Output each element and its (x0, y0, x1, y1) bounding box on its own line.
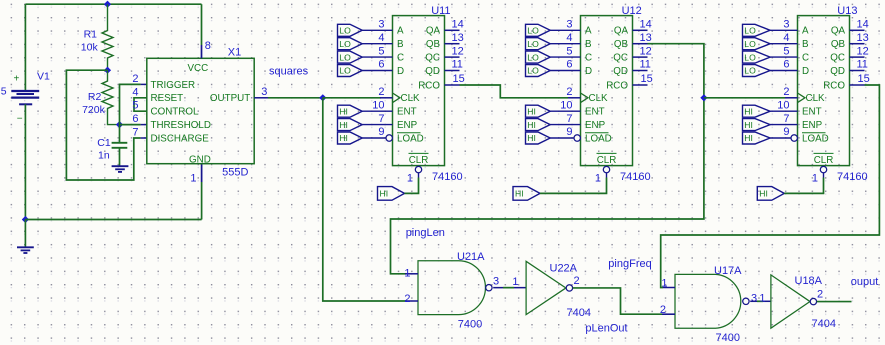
svg-text:HI: HI (380, 189, 389, 199)
wire: U17A output to U18A input (750, 300, 771, 302)
svg-text:HI: HI (527, 133, 536, 143)
svg-text:CLK: CLK (401, 93, 421, 104)
pin number 14 (U11 QA) (452, 19, 464, 31)
input constant LO at U12 pin C (526, 51, 551, 63)
wire: LO tip to U11 pin A (362, 29, 392, 31)
svg-text:squares: squares (269, 65, 309, 77)
label: U11 pin name QD (425, 66, 440, 77)
input constant LO at U12 pin A (526, 24, 551, 36)
svg-text:U12: U12 (622, 5, 642, 17)
pin number 6 (555 THRESHOLD) (132, 113, 138, 125)
label: U11 pin name ENP (397, 120, 418, 131)
svg-text:13: 13 (857, 32, 869, 44)
bubble: U11 LOAD active-low (386, 135, 392, 141)
pin number 5 (U11 C) (378, 45, 384, 57)
battery V1 (11, 91, 39, 104)
label: U13 pin name C (802, 52, 809, 63)
svg-text:10k: 10k (81, 42, 99, 54)
wire: LO tip to U11 pin D (362, 70, 392, 72)
label: U11 pin name QC (425, 52, 440, 63)
pin number 4 (U13 B) (783, 32, 789, 44)
inverter U22A 7404 body (526, 261, 566, 314)
label: U13 pin name B (802, 39, 809, 50)
svg-text:CONTROL: CONTROL (151, 107, 199, 118)
svg-text:74160: 74160 (432, 171, 463, 183)
label: U13 pin name CLR with overline (814, 153, 834, 166)
wire: R1-R2 junction loop to 555 DISCHARGE pin 7 (66, 70, 146, 180)
bubble: U12 LOAD active-low (574, 135, 580, 141)
svg-text:ENP: ENP (585, 120, 606, 131)
label: 555 pin name RESET (151, 93, 184, 104)
label: 555 pin name VCC (188, 63, 209, 74)
label: U11 pin name A (397, 26, 404, 37)
svg-text:2: 2 (783, 86, 789, 98)
label: U11 pin name RCO (418, 80, 440, 91)
label: U12 pin name RCO (606, 80, 628, 91)
label: 555 part number 555D (222, 166, 248, 178)
svg-text:6: 6 (132, 113, 138, 125)
label: counter reference U12 (622, 5, 642, 17)
svg-text:CLK: CLK (806, 93, 826, 104)
pin number 12 (U13 QC) (857, 45, 869, 57)
svg-text:B: B (397, 39, 404, 50)
input constant HI at U13 pin CLR (757, 187, 784, 201)
pin number 10 (U13 ENT) (777, 99, 789, 111)
input constant HI at U12 pin LOAD (526, 132, 551, 144)
svg-text:1: 1 (812, 172, 818, 184)
wire: C1 bottom plate to ground symbol (119, 148, 121, 166)
bubble: U18A output (810, 298, 816, 304)
input constant LO at U11 pin A (338, 24, 363, 36)
pin number 3 (U13 A) (783, 19, 789, 31)
wire: LO tip to U11 pin B (362, 43, 392, 45)
pin number 12 (U12 QC) (640, 45, 652, 57)
wire: U13 QC output pin stub (850, 56, 865, 58)
label: U13 pin name CLK with edge marker (798, 93, 826, 104)
nand gate U17A 7400 body (675, 274, 741, 328)
pin number 2 (555 TRIGGER) (132, 73, 138, 85)
svg-text:5: 5 (566, 45, 572, 57)
label: U13 pin name ENP (802, 120, 823, 131)
svg-text:LO: LO (744, 66, 756, 76)
pin number 11 (U11 QD) (452, 59, 463, 71)
label: U13 pin name D (802, 66, 809, 77)
pin number 9 (U12 LOAD) (566, 126, 572, 138)
node: junction top rail / R1 top (104, 1, 111, 8)
wire: U13 CLK pin stub (785, 97, 798, 99)
label: U13 pin name QB (831, 39, 846, 50)
wire: bottom rail to 555 GND riser (25, 219, 201, 221)
pin number 2 (U12 CLK) (566, 86, 572, 98)
label: battery reference V1 (37, 71, 50, 83)
svg-text:QB: QB (831, 39, 846, 50)
svg-text:U18A: U18A (795, 275, 823, 287)
label: resistor reference R2 (88, 91, 102, 103)
svg-text:LO: LO (527, 66, 539, 76)
wire: U11 RCO to U12 CLK (460, 85, 569, 98)
svg-text:15: 15 (858, 73, 870, 85)
wire: U17A input 1 pin stub (663, 287, 675, 289)
svg-text:QB: QB (426, 39, 441, 50)
label: U12 pin name B (585, 39, 592, 50)
svg-text:14: 14 (640, 19, 652, 31)
svg-text:1: 1 (759, 293, 765, 305)
wire: U12 RCO output pin stub (633, 84, 648, 86)
svg-text:5: 5 (378, 45, 384, 57)
pin number 7 (U13 ENP) (783, 113, 789, 125)
pin number 14 (U13 QA) (857, 19, 869, 31)
svg-text:7: 7 (378, 113, 384, 125)
svg-text:HI: HI (339, 120, 348, 130)
svg-text:QC: QC (613, 52, 628, 63)
wire: LO tip to U12 pin B (550, 43, 580, 45)
label: 555 reference X1 (228, 47, 241, 59)
label: capacitor reference C1 (97, 137, 111, 149)
wire: HI tip to U12 pin ENT (550, 110, 580, 112)
pin number 11 (U12 QD) (640, 59, 651, 71)
wire: U12 CLR bubble down and left to HI constant (540, 173, 607, 194)
label: U13 pin name ENT (802, 107, 822, 118)
svg-text:74160: 74160 (620, 171, 651, 183)
svg-text:7: 7 (566, 113, 572, 125)
wire: U13 RCO output pin stub (850, 84, 865, 86)
pin number 3 (555 OUTPUT) (261, 86, 267, 98)
svg-text:6: 6 (378, 59, 384, 71)
wire: U11 QA output pin stub (445, 29, 460, 31)
svg-text:2: 2 (660, 304, 666, 316)
svg-text:A: A (802, 26, 809, 37)
label: net name squares (269, 65, 309, 77)
wire: drop from bottom rail junction to ground symbol (24, 220, 26, 247)
svg-text:LOAD: LOAD (397, 133, 424, 144)
svg-text:LO: LO (744, 26, 756, 36)
svg-text:LO: LO (527, 39, 539, 49)
svg-text:pingFreq: pingFreq (608, 258, 651, 270)
wire: U12 QA output pin stub (633, 29, 648, 31)
wire: U21A input 1 pin stub (405, 273, 418, 275)
svg-text:LO: LO (339, 39, 351, 49)
pin number 8 (555 VCC) (205, 40, 211, 52)
wire: U13 RCO around to U17A input 1 (pingFreq) (661, 85, 880, 288)
label: U11 pin name CLR with overline (409, 153, 429, 166)
svg-text:2: 2 (132, 73, 138, 85)
pin number 1 (U21A in1) (404, 268, 410, 280)
input constant HI at U12 pin ENT (526, 105, 551, 117)
node: junction U12 QB wire / U13 CLK branch (700, 94, 707, 101)
svg-text:LO: LO (339, 26, 351, 36)
wire: U11 QB output pin stub (445, 43, 460, 45)
counter U12 74160 body (581, 16, 633, 166)
wire: U12 CLK pin stub (568, 97, 581, 99)
pin number 2 (U13 CLK) (783, 86, 789, 98)
wire: U21A output to U22A input (493, 287, 526, 289)
label: U11 pin name C (397, 52, 404, 63)
capacitor C1 (112, 143, 128, 148)
wire: U13 QB output pin stub (850, 43, 865, 45)
svg-text:U21A: U21A (457, 251, 485, 263)
svg-text:GND: GND (189, 155, 211, 166)
label: U12 pin name QA (614, 26, 629, 37)
svg-text:DISCHARGE: DISCHARGE (151, 133, 210, 144)
label: net name pingFreq (608, 258, 651, 270)
svg-text:1: 1 (595, 172, 601, 184)
label: U12 pin name QB (614, 39, 629, 50)
svg-text:555D: 555D (222, 166, 248, 178)
pin number 15 (U11 RCO) (453, 73, 465, 85)
input constant LO at U12 pin D (526, 65, 551, 77)
pin number 15 (U13 RCO) (858, 73, 870, 85)
svg-text:10: 10 (560, 99, 572, 111)
svg-text:ENT: ENT (585, 107, 605, 118)
svg-text:9: 9 (566, 126, 572, 138)
bubble: U13 CLR active-low (820, 166, 826, 172)
svg-text:6: 6 (783, 59, 789, 71)
label: gate reference U22A (550, 263, 578, 275)
input constant HI at U12 pin ENP (526, 119, 551, 131)
svg-text:15: 15 (453, 73, 465, 85)
svg-text:12: 12 (857, 45, 869, 57)
svg-text:THRESHOLD: THRESHOLD (151, 120, 211, 131)
wire: LO tip to U13 pin C (770, 56, 797, 58)
label: U11 pin name D (397, 66, 404, 77)
label: U13 pin name QA (831, 26, 846, 37)
input constant LO at U11 pin B (338, 38, 363, 50)
label: net name ouput (851, 276, 879, 288)
nand gate U21A 7400 body (418, 261, 485, 315)
wire: riser from bottom rail up to 555 GND pin 1 (201, 164, 203, 220)
svg-text:HI: HI (339, 133, 348, 143)
resistor R1 (102, 4, 113, 70)
svg-text:LO: LO (527, 52, 539, 62)
input constant HI at U13 pin ENP (743, 119, 771, 131)
svg-text:QD: QD (830, 66, 845, 77)
label: U12 pin name A (585, 26, 592, 37)
svg-text:VCC: VCC (188, 63, 209, 74)
svg-text:12: 12 (452, 45, 464, 57)
svg-text:U11: U11 (431, 5, 450, 17)
input constant HI at U11 pin ENT (338, 105, 363, 117)
label: counter reference U11 (431, 5, 450, 17)
svg-text:LO: LO (339, 66, 351, 76)
svg-text:3: 3 (261, 86, 267, 98)
wire: U21A input 2 pin stub (405, 300, 418, 302)
input constant LO at U11 pin D (338, 65, 363, 77)
svg-text:7404: 7404 (812, 318, 836, 330)
svg-text:2: 2 (378, 86, 384, 98)
wire: U17A input 2 pin stub (662, 313, 675, 315)
wire: U11 QC output pin stub (445, 56, 460, 58)
svg-text:4: 4 (783, 32, 789, 44)
wire: HI tip to U13 pin ENT (770, 110, 797, 112)
label: U11 pin name CLK with edge marker (393, 93, 421, 104)
svg-text:A: A (397, 26, 404, 37)
input constant LO at U11 pin C (338, 51, 363, 63)
label: U12 pin name CLR with overline (597, 153, 617, 166)
svg-text:7400: 7400 (716, 332, 740, 344)
pin number 3 (U17A out) (751, 293, 757, 305)
label: resistor value 720k (82, 104, 106, 116)
label: resistor reference R1 (84, 28, 98, 40)
input constant HI at U11 pin ENP (338, 119, 363, 131)
wire: U12 QC output pin stub (633, 56, 648, 58)
pin number 5 (U13 C) (783, 45, 789, 57)
wire: junction up and right to 555 TRIGGER pin 2 (120, 84, 147, 124)
wire: U11 CLR bubble down and left to HI constant (405, 173, 419, 194)
pin number 10 (U11 ENT) (372, 99, 384, 111)
svg-text:QD: QD (425, 66, 440, 77)
wire: HI tip to U11 pin ENP (362, 124, 392, 126)
svg-text:CLR: CLR (814, 155, 834, 166)
svg-text:2: 2 (566, 86, 572, 98)
wire: LO tip to U13 pin D (770, 70, 797, 72)
svg-text:LO: LO (339, 52, 351, 62)
wire: LO tip to U13 pin A (770, 29, 797, 31)
svg-text:13: 13 (452, 32, 464, 44)
svg-text:−: − (17, 114, 23, 125)
svg-text:QA: QA (426, 26, 441, 37)
svg-text:C1: C1 (97, 137, 111, 149)
pin number 2 (U11 CLK) (378, 86, 384, 98)
pin number 4 (U11 B) (378, 32, 384, 44)
label: gate reference U21A (457, 251, 485, 263)
input constant HI at U11 pin LOAD (338, 132, 363, 144)
wire: LO tip to U11 pin C (362, 56, 392, 58)
label: 555 pin name DISCHARGE (151, 133, 210, 144)
pin number 14 (U12 QA) (640, 19, 652, 31)
svg-text:CLR: CLR (409, 155, 429, 166)
svg-text:RCO: RCO (823, 80, 845, 91)
svg-text:R1: R1 (84, 28, 98, 40)
ground symbol at battery negative (17, 247, 34, 253)
svg-text:D: D (802, 66, 809, 77)
svg-text:HI: HI (744, 106, 753, 116)
pin number 1 (U18A in) (759, 293, 765, 305)
svg-text:74160: 74160 (837, 171, 868, 183)
label: U12 part number 74160 (620, 171, 651, 183)
wire: U11 CLK pin stub (380, 97, 393, 99)
inverter U18A 7404 body (771, 275, 810, 328)
label: 555 pin name CONTROL (151, 107, 199, 118)
svg-text:1: 1 (661, 278, 667, 290)
label: U11 pin name ENT (397, 107, 417, 118)
wire: U13 QA output pin stub (850, 29, 865, 31)
svg-text:HI: HI (527, 120, 536, 130)
pin number 2 (U17A in2) (660, 304, 666, 316)
pin number 4 (555 RESET) (132, 86, 138, 98)
svg-text:14: 14 (452, 19, 464, 31)
node: junction battery- / bottom rail / ground drop (22, 216, 29, 223)
svg-text:15: 15 (641, 73, 653, 85)
svg-text:ENP: ENP (802, 120, 823, 131)
pin number 15 (U12 RCO) (641, 73, 653, 85)
svg-text:7: 7 (783, 113, 789, 125)
wire: LO tip to U12 pin C (550, 56, 580, 58)
svg-text:9: 9 (378, 126, 384, 138)
pin number 1 (U22A in) (512, 276, 518, 288)
pin number 2 (U18A out) (817, 289, 823, 301)
svg-text:4: 4 (566, 32, 572, 44)
svg-text:11: 11 (640, 59, 651, 71)
label: resistor value 10k (81, 42, 99, 54)
resistor R2 (102, 70, 120, 124)
svg-text:QD: QD (613, 66, 628, 77)
node: junction squares net branch (319, 94, 326, 101)
label: battery plus polarity (14, 74, 20, 85)
svg-text:1: 1 (512, 276, 518, 288)
label: gate reference U18A (795, 275, 823, 287)
svg-text:ENT: ENT (397, 107, 417, 118)
input constant LO at U13 pin C (743, 51, 771, 63)
label: battery minus polarity (17, 114, 23, 125)
bubble: U13 LOAD active-low (791, 135, 797, 141)
label: 555 pin name GND (189, 155, 211, 166)
input constant HI at U11 pin CLR (378, 187, 405, 201)
svg-text:14: 14 (857, 19, 869, 31)
bubble: U12 CLR active-low (603, 166, 609, 172)
wire: HI tip to U11 pin ENT (362, 110, 392, 112)
wire: U18A output (ouput net) (817, 301, 852, 303)
wire: U12 QB down to pingLen rail (391, 44, 704, 274)
label: U13 pin name LOAD with overline (802, 133, 829, 145)
svg-text:5: 5 (1, 85, 7, 97)
wire: U12 QB output pin stub (633, 43, 648, 45)
label: U12 pin name QD (613, 66, 628, 77)
wire: squares junction to U11 CLK (323, 97, 381, 99)
svg-text:QC: QC (425, 52, 440, 63)
svg-text:OUTPUT: OUTPUT (210, 93, 250, 104)
label: 555 pin name TRIGGER (151, 80, 196, 91)
label: U12 pin name C (585, 52, 592, 63)
wire: loop shorting 555 RESET pin 4 to CONTROL pin 5 (134, 98, 147, 111)
svg-text:13: 13 (640, 32, 652, 44)
label: U12 pin name ENP (585, 120, 606, 131)
label: U11 pin name LOAD with overline (397, 133, 424, 145)
svg-text:5: 5 (132, 100, 138, 112)
label: gate part number 7400 (U21A) (458, 319, 482, 331)
wire: junction right to 555 THRESHOLD pin 6 (120, 124, 147, 126)
pin number 7 (555 DISCHARGE) (132, 127, 138, 139)
svg-text:3: 3 (783, 19, 789, 31)
wire: HI tip to U11 LOAD bubble (362, 137, 386, 139)
pin number 1 (U13 CLR) (812, 172, 818, 184)
svg-text:QC: QC (830, 52, 845, 63)
svg-text:+: + (14, 74, 20, 85)
svg-text:7404: 7404 (567, 307, 591, 319)
svg-text:HI: HI (527, 106, 536, 116)
svg-text:QB: QB (614, 39, 629, 50)
svg-text:HI: HI (339, 106, 348, 116)
svg-text:RCO: RCO (418, 80, 440, 91)
label: U12 pin name LOAD with overline (585, 133, 612, 145)
pin number 7 (U12 ENP) (566, 113, 572, 125)
pin number 9 (U13 LOAD) (783, 126, 789, 138)
pin number 10 (U12 ENT) (560, 99, 572, 111)
svg-text:6: 6 (566, 59, 572, 71)
svg-text:3: 3 (378, 19, 384, 31)
svg-text:1: 1 (190, 172, 196, 184)
wire: VCC top rail from battery+ to 555 pin 8 riser (25, 3, 201, 5)
label: capacitor value 1n (98, 149, 110, 161)
svg-text:10: 10 (372, 99, 384, 111)
wire: battery positive lead up to VCC rail (24, 4, 26, 90)
label: 555 pin name OUTPUT (210, 93, 250, 104)
svg-text:12: 12 (640, 45, 652, 57)
pin number 6 (U11 D) (378, 59, 384, 71)
label: U13 part number 74160 (837, 171, 868, 183)
ground symbol at C1 (112, 166, 129, 172)
pin number 1 (555 GND) (190, 172, 196, 184)
pin number 5 (U12 C) (566, 45, 572, 57)
